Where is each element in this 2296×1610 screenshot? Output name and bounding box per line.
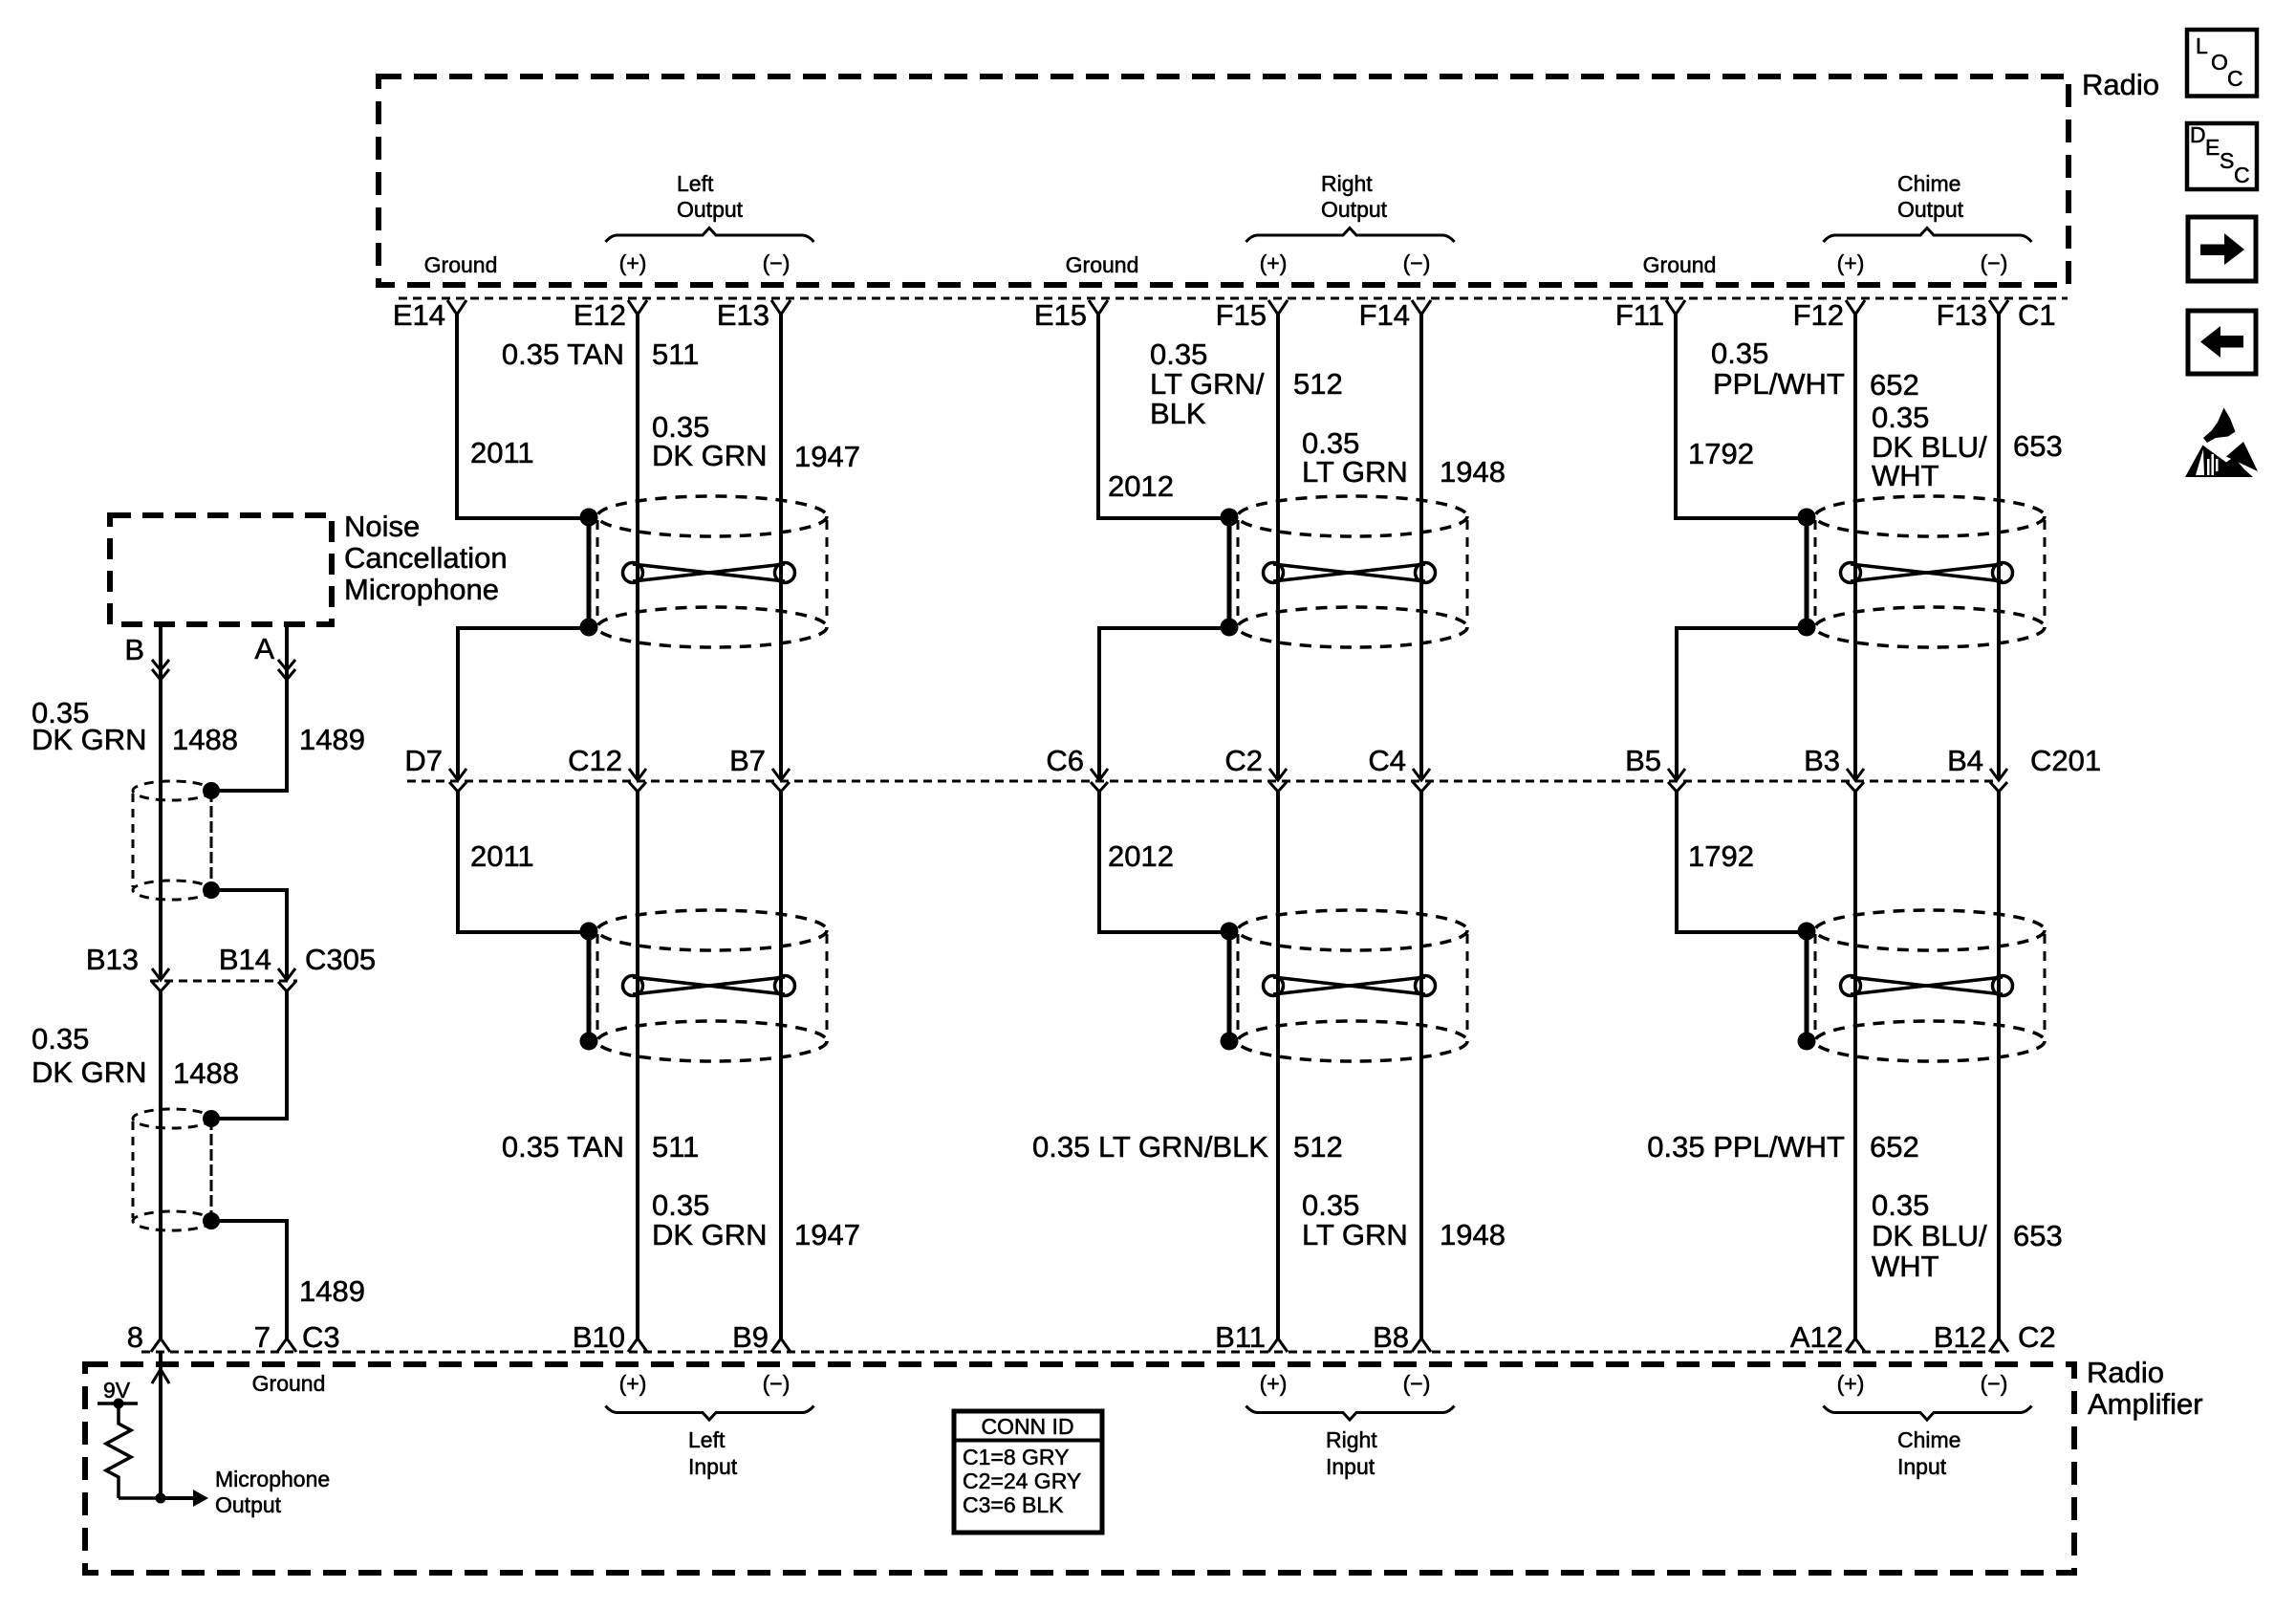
- noise cancellation microphone name label: [344, 510, 508, 606]
- svg-text:WHT: WHT: [1872, 1250, 1939, 1283]
- wire circuit 653 (-) conductor B4 to B12: [1997, 790, 2001, 1338]
- twisted pair crossing (bottom): [1841, 976, 2013, 996]
- svg-text:B11: B11: [1215, 1320, 1266, 1354]
- microphone output arrow: [161, 1496, 194, 1500]
- twist junction dot: [203, 881, 220, 899]
- svg-text:0.35 PPL/WHT: 0.35 PPL/WHT: [1647, 1130, 1845, 1164]
- radio amplifier pin B8 connector arrow: [1412, 1338, 1431, 1352]
- svg-text:1948: 1948: [1440, 455, 1505, 489]
- svg-text:PPL/WHT: PPL/WHT: [1713, 367, 1845, 401]
- svg-text:C12: C12: [568, 744, 622, 777]
- svg-text:A12: A12: [1790, 1320, 1843, 1354]
- pin label B11: [1215, 1320, 1266, 1354]
- svg-text:652: 652: [1870, 1130, 1919, 1164]
- svg-text:DK GRN: DK GRN: [32, 723, 147, 756]
- shield junction dot: [580, 619, 598, 637]
- wire circuit 1948 (-) conductor F14 to C4: [1419, 315, 1423, 779]
- connector C201 pin B4 arrows: [1990, 769, 2007, 792]
- svg-text:(+): (+): [1837, 1371, 1865, 1396]
- wire value labels circuit 652/653 (bottom): [1647, 839, 2062, 1283]
- wire circuit 652 (+) conductor F12 to B3: [1853, 315, 1857, 779]
- svg-text:C3=6 BLK: C3=6 BLK: [963, 1492, 1064, 1517]
- pin label F15: [1216, 298, 1267, 332]
- svg-text:653: 653: [2013, 429, 2063, 463]
- pin label B12: [1934, 1320, 1986, 1354]
- shielded twisted pair cylinder (bottom): [597, 910, 827, 1061]
- twist junction dot: [203, 782, 220, 799]
- svg-text:E15: E15: [1034, 298, 1087, 332]
- direction chevrons on circuit 1488: [152, 660, 169, 680]
- svg-text:LT GRN: LT GRN: [1302, 455, 1408, 489]
- svg-text:(+): (+): [1837, 250, 1865, 275]
- svg-text:E12: E12: [574, 298, 626, 332]
- inline connector C201 boundary line: [407, 780, 1999, 783]
- pin label B5: [1625, 744, 1661, 777]
- svg-text:DK BLU/: DK BLU/: [1872, 1219, 1987, 1252]
- pin label B8: [1373, 1320, 1409, 1354]
- svg-text:Chime: Chime: [1897, 1427, 1960, 1452]
- svg-text:C: C: [2234, 163, 2250, 187]
- svg-text:B12: B12: [1934, 1320, 1986, 1354]
- radio amplifier pin B11 connector arrow: [1268, 1338, 1288, 1352]
- shield junction dot: [1798, 509, 1816, 527]
- svg-text:2011: 2011: [470, 839, 534, 873]
- radio amplifier pin B12 connector arrow: [1989, 1338, 2008, 1352]
- shielded twisted pair cylinder (top): [597, 496, 827, 647]
- wire circuit 653 (-) conductor F13 to B4: [1997, 315, 2001, 779]
- (-) polarity label pin B12: [1981, 1371, 2008, 1396]
- direction chevrons on circuit 1489: [278, 660, 295, 680]
- svg-text:E13: E13: [717, 298, 769, 332]
- svg-text:LT GRN: LT GRN: [1302, 1218, 1408, 1251]
- svg-text:Microphone: Microphone: [344, 573, 499, 606]
- svg-text:Cancellation: Cancellation: [344, 541, 508, 575]
- 9V supply rail: [97, 1402, 138, 1405]
- wire circuit 2012 ground drain from E15 (top): [1098, 315, 1229, 518]
- connector C201 pin C6 arrows: [1091, 769, 1108, 792]
- svg-text:1792: 1792: [1688, 437, 1754, 470]
- Left Output net label: [677, 171, 744, 222]
- wire circuit 2011 ground drain from D7 (bottom): [458, 790, 589, 932]
- svg-text:C1=8 GRY: C1=8 GRY: [963, 1445, 1069, 1469]
- (+) polarity label pin A12: [1837, 1371, 1865, 1396]
- pin label A12: [1790, 1320, 1843, 1354]
- radio amplifier pin A12 connector arrow: [1846, 1338, 1865, 1352]
- connector C201 pin C4 arrows: [1413, 769, 1430, 792]
- svg-text:Output: Output: [1321, 197, 1388, 222]
- svg-text:Left: Left: [677, 171, 714, 196]
- radio amplifier component name label: [2087, 1356, 2203, 1421]
- connector C201 pin C2 arrows: [1269, 769, 1287, 792]
- junction dot 9V rail: [114, 1399, 124, 1409]
- svg-text:Ground: Ground: [252, 1371, 326, 1396]
- svg-text:Noise: Noise: [344, 510, 420, 543]
- wire circuit 1488 conductor B to B13: [159, 624, 162, 979]
- svg-text:2012: 2012: [1108, 839, 1174, 873]
- svg-text:(+): (+): [1260, 1371, 1288, 1396]
- Chime Input net label: [1897, 1427, 1960, 1479]
- (-) polarity label pin B8: [1403, 1371, 1431, 1396]
- Left Input brace: [606, 1406, 814, 1421]
- pin label B9: [732, 1320, 769, 1354]
- wire circuit 1488 conductor B13 to pin 8: [159, 990, 162, 1338]
- twisted pair crossing (top): [1264, 563, 1436, 583]
- shield junction dot: [1798, 619, 1816, 637]
- svg-text:C2: C2: [2018, 1320, 2056, 1354]
- wire circuit 512 (+) conductor F15 to C2: [1276, 315, 1280, 779]
- radio pin F13 connector arrow: [1989, 300, 2008, 315]
- shield junction dot: [1798, 1033, 1816, 1051]
- shield junction dot: [1221, 923, 1239, 941]
- (-) polarity label pin B9: [763, 1371, 791, 1396]
- svg-text:(−): (−): [1981, 250, 2008, 275]
- svg-text:C305: C305: [305, 943, 376, 976]
- svg-text:2011: 2011: [470, 436, 534, 469]
- connector C201 pin B5 arrows: [1668, 769, 1685, 792]
- wire circuit 512 (+) conductor C2 to B11: [1276, 790, 1280, 1338]
- pin label F13: [1937, 298, 1987, 332]
- svg-text:1948: 1948: [1440, 1218, 1505, 1251]
- svg-text:Ground: Ground: [424, 252, 498, 277]
- svg-text:C6: C6: [1046, 744, 1084, 777]
- pin label B14: [219, 943, 271, 976]
- pin label B7: [729, 744, 766, 777]
- wire resistor to mic output node: [119, 1496, 161, 1500]
- svg-text:C1: C1: [2018, 298, 2056, 332]
- radio connector name C1: [2018, 298, 2056, 332]
- svg-text:F13: F13: [1937, 298, 1987, 332]
- svg-text:Amplifier: Amplifier: [2088, 1387, 2203, 1421]
- radio pin F15 connector arrow: [1268, 300, 1288, 315]
- svg-text:Right: Right: [1326, 1427, 1377, 1452]
- pin label E12: [574, 298, 626, 332]
- net Ground label (radio pin F11): [1643, 252, 1717, 277]
- svg-text:Left: Left: [688, 1427, 726, 1452]
- svg-text:B4: B4: [1947, 744, 1983, 777]
- wire circuit 1489 conductor A (top section): [211, 624, 287, 791]
- radio pin F14 connector arrow: [1412, 300, 1431, 315]
- Chime Output net label: [1897, 171, 1964, 222]
- Left Input net label: [688, 1427, 738, 1479]
- svg-text:O: O: [2211, 50, 2228, 75]
- svg-text:(−): (−): [1403, 1371, 1431, 1396]
- svg-text:0.35 LT GRN/BLK: 0.35 LT GRN/BLK: [1032, 1130, 1268, 1164]
- svg-text:511: 511: [652, 1130, 699, 1164]
- radio amplifier connectors C2 C3 boundary line: [141, 1351, 2003, 1354]
- svg-text:B7: B7: [729, 744, 766, 777]
- (+) polarity label pin E12: [619, 250, 647, 275]
- drain wire between shield dots (bottom): [1227, 931, 1232, 1041]
- radio pin F11 connector arrow: [1666, 300, 1685, 315]
- twisted pair crossing (top): [1841, 563, 2013, 583]
- (-) polarity label pin E13: [763, 250, 791, 275]
- svg-text:0.35: 0.35: [32, 1022, 89, 1055]
- radio amplifier pin 7 connector arrow: [277, 1338, 296, 1352]
- svg-text:0.35: 0.35: [1302, 1188, 1359, 1222]
- svg-text:DK GRN: DK GRN: [32, 1055, 147, 1089]
- svg-text:(−): (−): [1981, 1371, 2008, 1396]
- svg-text:Right: Right: [1321, 171, 1373, 196]
- mic twisted pair cylinder (lower): [133, 1109, 211, 1230]
- junction dot mic output node: [156, 1493, 166, 1504]
- signal direction arrowhead up on pin 8 wire: [152, 1369, 169, 1383]
- DESC legend box: [2187, 122, 2257, 189]
- radio component dashed box: [379, 76, 2069, 285]
- wire labels circuit 1488 (lower): [32, 1022, 239, 1090]
- pin label 8: [127, 1320, 143, 1354]
- wire circuit 1792 ground drain from B5 (bottom): [1677, 790, 1807, 932]
- svg-text:Radio: Radio: [2082, 68, 2159, 101]
- shield junction dot: [1798, 923, 1816, 941]
- radio component name label: [2082, 68, 2159, 101]
- svg-text:B9: B9: [732, 1320, 769, 1354]
- svg-text:8: 8: [127, 1320, 143, 1354]
- svg-text:CONN ID: CONN ID: [981, 1414, 1073, 1439]
- connector C201 pin D7 arrows: [449, 769, 466, 792]
- Chime Output brace: [1824, 228, 2032, 243]
- svg-text:512: 512: [1293, 367, 1343, 401]
- forward arrow legend box: [2188, 217, 2256, 281]
- shield junction dot: [1221, 619, 1239, 637]
- radio pin E13 connector arrow: [771, 300, 791, 315]
- svg-text:B3: B3: [1804, 744, 1840, 777]
- svg-text:(+): (+): [619, 1371, 647, 1396]
- shielded twisted pair cylinder (bottom): [1815, 910, 2045, 1061]
- Microphone Output label: [215, 1467, 330, 1517]
- pin label C6: [1046, 744, 1084, 777]
- Right Output brace: [1246, 228, 1455, 243]
- pin label B10: [573, 1320, 625, 1354]
- radio amplifier connector name C2: [2018, 1320, 2056, 1354]
- svg-text:F12: F12: [1793, 298, 1844, 332]
- drain wire between shield dots: [1805, 517, 1809, 627]
- twisted pair crossing (bottom): [1264, 976, 1436, 996]
- twist junction dot: [203, 1212, 220, 1229]
- wire pin 8 to mic output node: [159, 1352, 162, 1498]
- svg-text:Input: Input: [1326, 1454, 1375, 1479]
- mic pin B label: [124, 633, 144, 666]
- connector C305 pin B13 arrows: [152, 968, 169, 991]
- svg-text:Microphone: Microphone: [215, 1467, 330, 1491]
- pin label B13: [86, 943, 139, 976]
- wire circuit 1792 drain to B5 (top): [1677, 628, 1807, 779]
- svg-text:C4: C4: [1368, 744, 1406, 777]
- resistor R (mic bias): [106, 1403, 131, 1498]
- wire value labels circuit 652/653 (top): [1688, 337, 2063, 492]
- twisted pair crossing (bottom): [623, 976, 795, 996]
- svg-text:653: 653: [2013, 1219, 2063, 1252]
- wire circuit 1792 ground drain from F11 (top): [1676, 315, 1807, 518]
- wire circuit 1948 (-) conductor C4 to B8: [1419, 790, 1423, 1338]
- pin label F12: [1793, 298, 1844, 332]
- svg-text:Ground: Ground: [1066, 252, 1139, 277]
- shield junction dot: [580, 1033, 598, 1051]
- wire circuit 2012 drain to C6 (top): [1099, 628, 1229, 779]
- radio pin F12 connector arrow: [1846, 300, 1865, 315]
- wire circuit 1947 (-) conductor B7 to B9: [779, 790, 783, 1338]
- connector C201 pin B7 arrows: [772, 769, 790, 792]
- connector C201 pin B3 arrows: [1847, 769, 1864, 792]
- svg-text:C: C: [2227, 66, 2243, 91]
- wire labels circuit 1488/1489 (upper): [32, 696, 365, 756]
- mic twisted pair dashed link: [210, 791, 213, 890]
- svg-text:0.35: 0.35: [1711, 337, 1768, 370]
- svg-text:S: S: [2220, 148, 2234, 173]
- svg-text:Output: Output: [1897, 197, 1964, 222]
- wire circuit 2011 ground drain from E14 (top): [457, 315, 589, 518]
- svg-text:B13: B13: [86, 943, 139, 976]
- radio amplifier pin 8 connector arrow: [151, 1338, 170, 1352]
- svg-text:D7: D7: [404, 744, 443, 777]
- svg-text:2012: 2012: [1108, 469, 1174, 503]
- svg-text:DK GRN: DK GRN: [652, 1218, 768, 1251]
- wire circuit 1489 conductor B14 (lower section): [211, 990, 287, 1119]
- mic twisted pair cylinder (upper): [133, 781, 211, 900]
- svg-text:C2: C2: [1224, 744, 1263, 777]
- drain wire between shield dots: [587, 517, 592, 627]
- (+) polarity label pin F15: [1260, 250, 1288, 275]
- net Ground label (radio pin E15): [1066, 252, 1139, 277]
- svg-text:F14: F14: [1359, 298, 1410, 332]
- wire value labels circuit 512/1948 (top): [1108, 337, 1505, 503]
- wire circuit 1489 conductor A to B14: [211, 890, 287, 979]
- inline connector name C201: [2030, 744, 2101, 777]
- svg-text:E14: E14: [393, 298, 445, 332]
- wire circuit 2012 ground drain from C6 (bottom): [1099, 790, 1229, 932]
- svg-text:Chime: Chime: [1897, 171, 1960, 196]
- pin label E13: [717, 298, 769, 332]
- svg-text:B14: B14: [219, 943, 271, 976]
- svg-text:C201: C201: [2030, 744, 2101, 777]
- svg-text:F11: F11: [1615, 298, 1664, 332]
- svg-text:652: 652: [1870, 368, 1919, 402]
- CONN ID table text: [963, 1414, 1081, 1517]
- radio amplifier pin B10 connector arrow: [628, 1338, 647, 1352]
- Left Output brace: [606, 228, 814, 243]
- shield junction dot: [580, 923, 598, 941]
- svg-text:1489: 1489: [299, 1274, 365, 1308]
- svg-text:L: L: [2196, 33, 2208, 58]
- pin label E15: [1034, 298, 1087, 332]
- pin label E14: [393, 298, 445, 332]
- inline connector name C305: [305, 943, 376, 976]
- inline connector C305 boundary line: [150, 980, 297, 983]
- CONN ID table: [954, 1411, 1102, 1533]
- radio pin E14 connector arrow: [447, 300, 466, 315]
- svg-text:LT GRN/: LT GRN/: [1150, 367, 1265, 401]
- Right Input net label: [1326, 1427, 1377, 1479]
- svg-text:(−): (−): [763, 250, 791, 275]
- svg-text:Radio: Radio: [2087, 1356, 2164, 1389]
- shielded twisted pair cylinder (bottom): [1238, 910, 1467, 1061]
- svg-text:0.35 TAN: 0.35 TAN: [502, 337, 624, 371]
- noise cancellation microphone component dashed box: [110, 515, 332, 624]
- Chime Input brace: [1824, 1406, 2032, 1421]
- svg-text:B5: B5: [1625, 744, 1661, 777]
- (+) polarity label pin B10: [619, 1371, 647, 1396]
- svg-text:1792: 1792: [1688, 839, 1754, 873]
- Right Input brace: [1246, 1406, 1455, 1421]
- wire circuit 2011 drain to D7 (top): [458, 628, 589, 779]
- svg-text:511: 511: [652, 337, 699, 371]
- svg-text:0.35: 0.35: [1872, 401, 1929, 434]
- pin label D7: [404, 744, 443, 777]
- svg-text:A: A: [254, 632, 274, 665]
- radio pin E12 connector arrow: [628, 300, 647, 315]
- svg-text:Output: Output: [215, 1492, 282, 1517]
- svg-text:Input: Input: [688, 1454, 738, 1479]
- pin label B4: [1947, 744, 1983, 777]
- svg-text:1488: 1488: [173, 1056, 239, 1090]
- pin label F14: [1359, 298, 1410, 332]
- wire circuit 511 (+) conductor C12 to B10: [636, 790, 639, 1338]
- svg-text:E: E: [2205, 135, 2220, 160]
- svg-text:1947: 1947: [794, 1218, 860, 1251]
- wire value labels circuit 512/1948 (bottom): [1032, 839, 1505, 1251]
- svg-text:7: 7: [254, 1320, 271, 1354]
- svg-text:512: 512: [1293, 1130, 1343, 1164]
- drain wire between shield dots (bottom): [1805, 931, 1809, 1041]
- twisted pair crossing (top): [623, 563, 795, 583]
- wire circuit 1947 (-) conductor E13 to B7: [779, 315, 783, 779]
- svg-text:BLK: BLK: [1150, 397, 1206, 430]
- svg-text:C3: C3: [302, 1320, 340, 1354]
- svg-text:0.35: 0.35: [652, 1188, 709, 1222]
- shielded twisted pair cylinder (top): [1815, 496, 2045, 647]
- svg-text:WHT: WHT: [1872, 459, 1939, 492]
- pin label 7: [254, 1320, 271, 1354]
- ESD sensitive device symbol: [2185, 408, 2258, 478]
- wire circuit 511 (+) conductor E12 to C12: [636, 315, 639, 779]
- pin label C2: [1224, 744, 1263, 777]
- shielded twisted pair cylinder (top): [1238, 496, 1467, 647]
- svg-text:(+): (+): [1260, 250, 1288, 275]
- svg-text:D: D: [2190, 122, 2206, 147]
- radio amplifier pin B9 connector arrow: [771, 1338, 791, 1352]
- connector C201 pin C12 arrows: [629, 769, 646, 792]
- 9V supply label: [103, 1378, 131, 1403]
- (-) polarity label pin F13: [1981, 250, 2008, 275]
- (+) polarity label pin B11: [1260, 1371, 1288, 1396]
- svg-text:Ground: Ground: [1643, 252, 1717, 277]
- wire circuit 652 (+) conductor B3 to A12: [1853, 790, 1857, 1338]
- svg-text:Output: Output: [677, 197, 744, 222]
- radio amplifier connector name C3: [302, 1320, 340, 1354]
- radio pin E15 connector arrow: [1089, 300, 1108, 315]
- svg-text:Input: Input: [1897, 1454, 1947, 1479]
- back arrow legend box: [2188, 311, 2256, 374]
- pin label C4: [1368, 744, 1406, 777]
- svg-text:0.35: 0.35: [1150, 337, 1207, 371]
- svg-text:B: B: [124, 633, 144, 666]
- pin label C12: [568, 744, 622, 777]
- svg-text:(−): (−): [763, 1371, 791, 1396]
- Right Output net label: [1321, 171, 1388, 222]
- (+) polarity label pin F12: [1837, 250, 1865, 275]
- radio connector C1 boundary line: [399, 297, 2068, 300]
- net Ground label (radio pin E14): [424, 252, 498, 277]
- mic pin A label: [254, 632, 274, 665]
- shield junction dot: [580, 509, 598, 527]
- wire value labels circuit 511/1947 (top): [470, 337, 860, 473]
- mic twisted pair dashed link (lower): [210, 1119, 213, 1221]
- net Ground label (amplifier pin 7): [252, 1371, 326, 1396]
- pin label B3: [1804, 744, 1840, 777]
- (-) polarity label pin F14: [1403, 250, 1431, 275]
- svg-text:1947: 1947: [794, 440, 860, 473]
- wire label circuit 1489 (lower): [299, 1274, 365, 1308]
- twist junction dot: [203, 1110, 220, 1127]
